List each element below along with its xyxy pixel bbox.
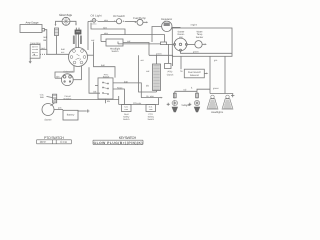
svg-text:Temp: Temp xyxy=(197,33,203,36)
taillight stem 1 xyxy=(174,91,176,98)
arrowhead xyxy=(146,21,148,23)
wire xyxy=(55,66,74,78)
svg-text:Circ.: Circ. xyxy=(40,94,45,97)
connector xyxy=(75,30,81,34)
wire xyxy=(143,21,147,23)
svg-text:engine: engine xyxy=(191,24,198,27)
headlight switch box xyxy=(106,39,123,46)
wire xyxy=(118,42,161,44)
headlight 2 xyxy=(222,95,233,109)
svg-text:com: com xyxy=(124,108,128,111)
arrowhead xyxy=(55,24,57,26)
taillight stem 2 xyxy=(196,91,198,98)
svg-text:grn: grn xyxy=(214,59,218,62)
svg-text:Solenoid: Solenoid xyxy=(63,70,73,73)
safety bus xyxy=(119,104,159,106)
svg-text:OFF: OFF xyxy=(40,140,47,144)
wire xyxy=(180,56,182,69)
arrowhead xyxy=(75,24,77,26)
svg-text:lt.: lt. xyxy=(191,87,193,90)
svg-text:KEY SWITCH: KEY SWITCH xyxy=(119,136,137,140)
wire xyxy=(70,21,76,24)
svg-text:C+D: C+D xyxy=(60,140,67,144)
arrow xyxy=(202,43,205,45)
wire oil light feed xyxy=(88,21,92,50)
wire xyxy=(40,48,47,50)
battery xyxy=(63,110,78,120)
taillight 1 xyxy=(172,100,178,106)
svg-text:batt: batt xyxy=(61,48,65,51)
fuel pump xyxy=(137,19,143,25)
svg-text:Headlights: Headlights xyxy=(211,111,224,114)
wire headlight bus xyxy=(210,93,233,95)
plus xyxy=(167,103,170,106)
svg-text:Seat: Seat xyxy=(124,113,129,116)
wire xyxy=(78,110,86,112)
wire xyxy=(91,23,125,35)
wire long xyxy=(101,35,165,42)
wire xyxy=(45,30,47,50)
wire xyxy=(55,77,62,79)
svg-text:A/acc: A/acc xyxy=(117,86,123,89)
gauge terminal xyxy=(42,29,45,32)
wire xyxy=(56,21,63,25)
wire xyxy=(172,26,181,28)
wire xyxy=(197,89,210,91)
oil switch xyxy=(116,19,121,24)
svg-text:Glow Plugs: Glow Plugs xyxy=(59,13,73,17)
plus xyxy=(188,103,191,106)
svg-text:Starter: Starter xyxy=(178,30,185,33)
glow plug hatch xyxy=(62,17,70,25)
svg-text:Sender: Sender xyxy=(196,36,204,39)
svg-text:PTO: PTO xyxy=(168,71,173,74)
taillight bus xyxy=(175,90,197,92)
arrow xyxy=(47,97,53,98)
taillight 2 xyxy=(194,100,200,106)
wire xyxy=(81,66,83,80)
wire xyxy=(139,55,157,92)
circuit breaker xyxy=(53,94,57,103)
svg-text:Oil Light: Oil Light xyxy=(91,14,102,17)
svg-text:B+ wire: B+ wire xyxy=(147,95,155,98)
svg-text:Taillights: Taillights xyxy=(181,104,191,107)
fuel shutoff box xyxy=(184,69,204,78)
wire xyxy=(78,34,80,48)
oil lamp xyxy=(92,19,96,23)
svg-text:Battery: Battery xyxy=(67,114,75,117)
wire xyxy=(76,28,79,48)
svg-text:green: green xyxy=(193,51,199,54)
small connector box xyxy=(161,42,167,45)
svg-text:Starter: Starter xyxy=(44,118,51,121)
wire xyxy=(123,43,149,56)
key switch terminals xyxy=(70,50,86,64)
ground xyxy=(29,61,32,63)
wire xyxy=(187,43,195,45)
pto switch box xyxy=(98,78,113,99)
wire xyxy=(47,53,69,55)
svg-text:Regulator: Regulator xyxy=(161,18,172,21)
svg-text:red: red xyxy=(91,39,95,42)
svg-text:Solenoid: Solenoid xyxy=(190,74,200,77)
wire xyxy=(101,41,106,43)
arrowhead xyxy=(33,54,35,56)
svg-text:batt: batt xyxy=(124,80,128,83)
engine box xyxy=(172,28,232,56)
glow plug xyxy=(62,17,70,25)
svg-text:red: red xyxy=(146,70,150,73)
svg-text:batt: batt xyxy=(101,64,105,67)
wire xyxy=(95,85,98,87)
headlight 1 xyxy=(207,95,218,109)
wire xyxy=(118,96,120,105)
wire xyxy=(149,55,173,66)
svg-text:PTO: PTO xyxy=(148,113,153,116)
fuse box xyxy=(30,44,40,58)
fuse box fuses xyxy=(32,47,38,56)
svg-text:blk: blk xyxy=(107,100,111,103)
svg-text:f/s: f/s xyxy=(180,70,183,73)
wire xyxy=(94,42,116,78)
wire dotted xyxy=(40,53,47,55)
svg-text:GLOW PLUG(B+)(P/N)(K): GLOW PLUG(B+)(P/N)(K) xyxy=(94,141,143,145)
svg-text:green: green xyxy=(156,53,162,56)
solenoid xyxy=(61,74,73,86)
plus terminal xyxy=(231,94,234,97)
svg-text:Safety: Safety xyxy=(123,115,130,118)
wire xyxy=(181,51,232,54)
svg-text:wht: wht xyxy=(56,75,60,78)
wire xyxy=(125,21,137,23)
wire headlight feed 1 xyxy=(209,56,211,93)
svg-text:Fuel Shutoff: Fuel Shutoff xyxy=(188,71,201,74)
sender circle xyxy=(195,41,202,48)
svg-text:Circuit: Circuit xyxy=(64,95,71,98)
svg-text:acc: acc xyxy=(141,59,145,62)
pto clutch connector xyxy=(165,64,172,69)
resistor box xyxy=(153,64,161,91)
wire B+ xyxy=(141,97,161,99)
svg-text:acc: acc xyxy=(61,51,65,54)
wire xyxy=(73,79,81,81)
svg-text:Switch: Switch xyxy=(111,50,119,53)
gauge box xyxy=(20,25,42,33)
wire xyxy=(156,55,158,64)
key switch xyxy=(69,48,88,67)
pto safety switch xyxy=(146,105,156,112)
svg-text:blk: blk xyxy=(146,85,150,88)
wire xyxy=(98,20,117,22)
wire xyxy=(168,44,170,63)
svg-text:Switch: Switch xyxy=(123,118,130,121)
wire xyxy=(51,103,55,106)
svg-text:green: green xyxy=(213,87,219,90)
wire label smudge xyxy=(73,36,75,45)
seat safety switch xyxy=(122,105,132,112)
wire xyxy=(29,58,31,63)
svg-text:Oil Switch: Oil Switch xyxy=(113,15,126,18)
wire batt xyxy=(113,83,141,98)
wire xyxy=(56,36,58,55)
wire xyxy=(156,91,158,93)
regulator xyxy=(162,21,172,31)
wire xyxy=(89,67,100,93)
starter generator circle xyxy=(174,38,187,51)
wire xyxy=(88,54,94,56)
svg-text:Gener-: Gener- xyxy=(177,33,184,36)
svg-text:com: com xyxy=(149,108,153,111)
svg-text:Brkr: Brkr xyxy=(40,96,44,99)
plus terminal xyxy=(86,109,89,112)
svg-text:Switch: Switch xyxy=(147,118,154,121)
wire xyxy=(105,99,107,103)
wire xyxy=(46,49,48,54)
fusible link xyxy=(55,28,59,36)
wire headlight feed 2 xyxy=(224,56,226,93)
wire xyxy=(158,98,160,105)
wire label smudge xyxy=(80,36,82,45)
wire xyxy=(167,43,175,45)
svg-text:Safety: Safety xyxy=(148,115,155,118)
arrow xyxy=(204,72,207,74)
wire acc xyxy=(113,89,124,105)
starter xyxy=(42,104,54,116)
ground bus xyxy=(54,99,119,101)
svg-text:Clutch: Clutch xyxy=(167,73,174,76)
svg-text:P/N wire: P/N wire xyxy=(133,102,142,105)
svg-text:Water: Water xyxy=(196,30,202,33)
wire xyxy=(152,27,162,43)
svg-text:Breaker: Breaker xyxy=(64,97,72,100)
wire xyxy=(54,109,63,111)
